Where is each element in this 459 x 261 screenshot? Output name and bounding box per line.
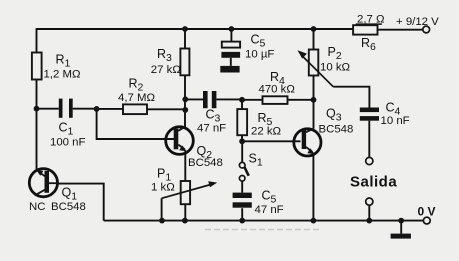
wire: P1 bottom to ground rail (184, 204, 186, 220)
node rail/P1 bottom (182, 218, 188, 224)
wire: Q1 base right then down to ground rail (58, 184, 104, 221)
resistor R1 (32, 53, 81, 81)
node R3/R2 (182, 107, 188, 113)
wire: R5/S1 node to Q3 base (242, 140, 301, 142)
wire: R5 node to R4 left (242, 99, 263, 101)
potentiometer P2 10k (298, 45, 351, 87)
node B junction C1/R2/Q2 base (94, 106, 100, 112)
svg-text:BC548: BC548 (188, 157, 223, 169)
node rail/P2 (311, 26, 317, 32)
wire: node B down and right to Q2 base (97, 109, 175, 139)
node rail/R3 (182, 26, 188, 32)
wire: node down to S1 top contact (241, 141, 243, 162)
svg-text:+ 9/12 V: + 9/12 V (396, 16, 439, 28)
wire: C4 bottom to Salida terminal (368, 121, 370, 158)
node R5/S1/Q3 base (239, 138, 245, 144)
wire: Salida ground terminal to rail (368, 205, 370, 220)
wire: C5 electrolytic bottom plate to ground bar (230, 58, 232, 66)
node rail/P1 wiper (159, 218, 165, 224)
wire: bottom ground rail (104, 220, 424, 222)
resistor R6 (353, 14, 385, 54)
wire: top supply rail left segment (37, 28, 354, 30)
wire: C3 right plate to R5 top node (216, 98, 242, 100)
wire: Q3 emitter down to ground rail (312, 154, 314, 221)
resistor R4 (259, 70, 296, 104)
svg-text:27 kΩ: 27 kΩ (151, 64, 182, 76)
svg-text:BC548: BC548 (51, 201, 86, 213)
capacitor C3 (197, 91, 226, 135)
wire: C1 right plate to node B (73, 108, 97, 110)
wire: left vertical from rail to R1 top (36, 28, 38, 52)
node C3/R4/R5 (239, 97, 245, 103)
potentiometer P1 1k (151, 167, 217, 205)
node rail/ground symbol (398, 218, 404, 224)
wire: rail to R3 top (184, 29, 186, 49)
wire: P2 wiper to C4 top (333, 87, 369, 108)
wire: R3 line to C3 left plate (185, 98, 203, 100)
wire: top supply rail right segment to +9/12V terminal (378, 29, 423, 31)
svg-text:1,2 MΩ: 1,2 MΩ (44, 69, 81, 81)
node R4/P2/Q3 collector (311, 97, 317, 103)
svg-text:2,7 Ω: 2,7 Ω (357, 14, 385, 26)
switch S1 (239, 152, 262, 182)
svg-text:0 V: 0 V (418, 205, 436, 219)
svg-text:4,7 MΩ: 4,7 MΩ (118, 92, 155, 104)
svg-text:10 nF: 10 nF (381, 115, 410, 127)
svg-text:10 kΩ: 10 kΩ (320, 62, 351, 74)
node rail/C5 47nF (239, 218, 245, 224)
svg-text:100 nF: 100 nF (50, 137, 86, 149)
wire: node A to C1 left plate (37, 108, 59, 110)
svg-text:22 kΩ: 22 kΩ (251, 126, 282, 138)
wire: R5 bottom stub (241, 135, 243, 141)
wire: R1 bottom to Q1 emitter (36, 80, 38, 172)
terminal +9/12V (396, 16, 439, 33)
wire: C5 bottom plate to ground rail (241, 208, 243, 220)
resistor R2 (118, 77, 155, 115)
resistor R5 (237, 109, 281, 137)
node A junction R1/C1 (34, 106, 40, 112)
node R3/C3 (182, 96, 188, 102)
wire: rail to C5 electrolytic top (230, 29, 232, 42)
svg-text:47 nF: 47 nF (197, 123, 226, 135)
transistor Q3 BC548 (294, 107, 354, 156)
wire: R2 right to R3/Q2 line (147, 108, 185, 110)
wire: ground symbol stub (400, 221, 402, 234)
wire: rail to P2 top (313, 29, 315, 50)
svg-text:Salida: Salida (350, 174, 397, 191)
svg-text:1 kΩ: 1 kΩ (151, 182, 175, 194)
svg-text:NC: NC (29, 201, 45, 213)
svg-text:47 nF: 47 nF (255, 204, 284, 216)
wire: P1 wiper left leg to ground rail (161, 198, 163, 220)
capacitor C1 (50, 99, 86, 149)
wire: Q2 emitter down to P1 top (184, 151, 186, 182)
capacitor C5 electrolytic 10uF (221, 33, 274, 61)
terminal 0V (418, 205, 436, 225)
wire: R4 right to P2/Q3 line (288, 99, 314, 101)
resistor R3 (151, 47, 190, 76)
terminal Salida hot (366, 157, 373, 164)
ground symbol (391, 234, 411, 239)
svg-text:470 kΩ: 470 kΩ (259, 84, 296, 96)
wire: S1 bottom contact to C5 top plate (241, 181, 243, 193)
node rail/Q3 emitter (311, 218, 317, 224)
svg-text:BC548: BC548 (319, 124, 354, 136)
capacitor C4 (360, 101, 410, 128)
wire: P2 bottom to Q3 collector (313, 76, 315, 129)
node rail/C5 (229, 26, 235, 32)
transistor Q2 BC548 (166, 126, 223, 169)
transistor Q1 BC548 (NC) (29, 169, 86, 213)
wire: node B to R2 left (97, 108, 123, 110)
wire: R5 top stub (241, 100, 243, 110)
svg-text:10 µF: 10 µF (245, 49, 274, 61)
ground bar under C5 10uF (220, 66, 239, 73)
terminal Salida ground (366, 198, 373, 205)
capacitor C5 47nF (233, 189, 284, 217)
node rail/Salida ground (366, 218, 372, 224)
wire: R3 bottom to Q2 collector (184, 75, 186, 129)
